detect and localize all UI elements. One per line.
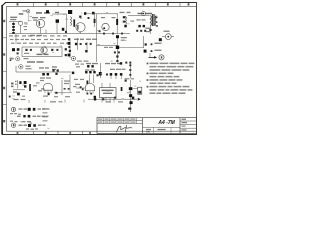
svg-text:A4 -7M: A4 -7M — [157, 120, 175, 126]
